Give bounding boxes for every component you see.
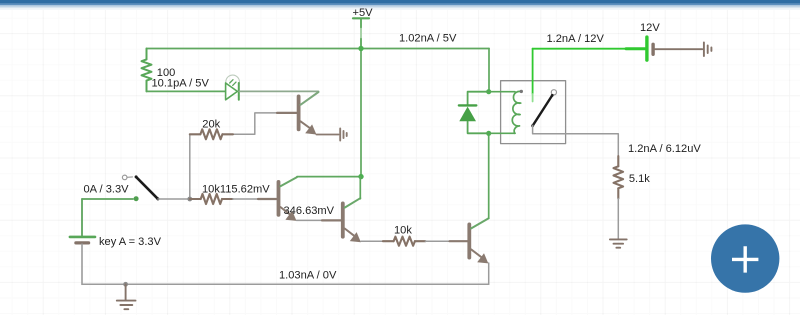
relay coil — [489, 90, 523, 134]
wire Q2 emitter to Q3 base — [297, 219, 323, 221]
ground 12V (right-facing) — [704, 42, 712, 56]
resistor 10k (base) — [190, 194, 233, 204]
wire rail right corner down to relay — [488, 49, 490, 92]
wire 10k to Q2 base — [233, 198, 258, 200]
wire switch to node — [158, 198, 190, 200]
wire 12V feed stub — [532, 49, 534, 94]
resistor 20k — [190, 129, 233, 139]
power supply +5V — [353, 18, 369, 47]
node base branch junction — [187, 197, 192, 202]
relay box — [501, 81, 566, 144]
transistor Q1 — [277, 92, 319, 135]
svg-text:0A / 3.3V: 0A / 3.3V — [84, 184, 130, 196]
svg-text:20k: 20k — [202, 119, 220, 131]
floating action button — [711, 224, 779, 292]
wire Q3 emitter to 10k — [361, 240, 383, 242]
wire relay common to 5.1k — [533, 126, 619, 156]
LED D1 — [226, 75, 240, 100]
ground 5.1k (down) — [610, 239, 627, 247]
wire 5.1k to ground — [617, 199, 619, 240]
svg-text:+5V: +5V — [353, 7, 374, 19]
transistor Q2 — [258, 177, 297, 221]
relay switch (open) — [531, 90, 556, 128]
node coil top junction — [486, 89, 491, 94]
wire 20k to Q1 base — [233, 113, 277, 134]
wire Q2 collector to +5V node — [297, 176, 361, 178]
wire Q4 collector to relay — [488, 133, 490, 218]
transistor Q3 — [322, 198, 361, 242]
wire 10k to Q4 base — [425, 240, 449, 242]
svg-text:346.63mV: 346.63mV — [284, 205, 335, 217]
svg-text:1.02nA / 5V: 1.02nA / 5V — [399, 33, 457, 45]
svg-text:5.1k: 5.1k — [629, 173, 650, 185]
diode flyback — [459, 92, 489, 134]
transistor Q4 — [450, 218, 489, 263]
ground main (down) — [117, 284, 136, 309]
battery key A 3.3V — [70, 199, 95, 284]
resistor 5.1k — [614, 156, 624, 198]
node ground junction — [123, 282, 128, 287]
svg-text:1.03nA / 0V: 1.03nA / 0V — [279, 270, 337, 282]
node switch contact — [134, 196, 139, 201]
resistor 10k (Q4 base) — [383, 237, 426, 246]
wire LED cathode to Q1 collector — [239, 90, 319, 92]
svg-text:1.2nA / 6.12uV: 1.2nA / 6.12uV — [628, 143, 701, 155]
node coil bottom junction — [486, 131, 491, 136]
battery 12V — [626, 37, 702, 60]
svg-text:10k115.62mV: 10k115.62mV — [202, 183, 270, 195]
svg-text:10.1pA / 5V: 10.1pA / 5V — [152, 78, 210, 90]
svg-text:1.2nA / 12V: 1.2nA / 12V — [547, 33, 605, 45]
wire battery to switch contact — [82, 198, 133, 200]
wire bottom 0V rail — [82, 283, 489, 285]
svg-text:key A = 3.3V: key A = 3.3V — [99, 236, 162, 248]
wire 12V horizontal — [533, 48, 626, 50]
switch key A (open) — [122, 175, 159, 200]
svg-text:12V: 12V — [640, 22, 660, 34]
wire +5V top rail — [147, 48, 490, 50]
top app bar — [0, 0, 800, 10]
node rail/tap junction — [358, 46, 363, 51]
svg-text:10k: 10k — [394, 224, 412, 236]
node collector junction — [358, 174, 363, 179]
wire +5V vertical tap — [360, 47, 362, 177]
wire Q1 emitter to ground — [316, 134, 338, 136]
ground Q1 (right-facing) — [340, 129, 347, 141]
resistor 100 — [142, 49, 152, 92]
wire Q4 emitter down — [488, 263, 490, 284]
wire 20k branch vertical — [189, 134, 191, 199]
wire Q3 collector up — [359, 177, 361, 199]
wire LED anode — [147, 90, 226, 92]
